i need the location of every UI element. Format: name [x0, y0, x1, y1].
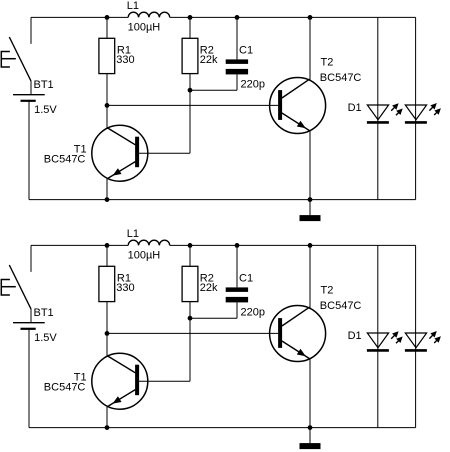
svg-text:100µH: 100µH [128, 250, 161, 262]
wire C1 bottom to node B (bottom circuit) [190, 302, 237, 318]
wire LED branch 2 vertical (right edge) (bottom circuit) [415, 245, 417, 427]
transistor T2 (top circuit) [270, 78, 326, 134]
wire C1 bottom to node B (top circuit) [190, 74, 237, 90]
ground (top circuit) [300, 200, 321, 222]
label 100µH (bottom circuit) [128, 250, 161, 262]
node supply/T2 collector junction (bottom circuit) [308, 243, 313, 248]
label 220p (bottom circuit) [241, 306, 265, 318]
svg-text:D1: D1 [348, 102, 362, 114]
resistor R2 (bottom circuit) [182, 266, 198, 301]
capacitor C1 (top circuit) [226, 59, 248, 74]
wire top supply rail left of L1 (bottom circuit) [31, 244, 128, 246]
inductor L1 (bottom circuit) [128, 240, 170, 245]
label T1 (bottom circuit) [74, 372, 87, 384]
battery BT1 (bottom circuit) [13, 323, 45, 329]
node supply/L1/R2 junction (top circuit) [188, 15, 193, 20]
label R1 (top circuit) [117, 44, 131, 56]
node A: R1 / T2 base / T1 collector (top circuit) [105, 103, 110, 108]
svg-text:1.5V: 1.5V [34, 332, 57, 344]
svg-text:100µH: 100µH [128, 22, 161, 34]
svg-text:T2: T2 [321, 285, 334, 297]
wire bottom ground rail (top circuit) [29, 199, 416, 201]
label C1 (bottom circuit) [239, 272, 253, 284]
label 22k (bottom circuit) [200, 282, 218, 294]
label BT1 (top circuit) [34, 79, 54, 91]
svg-text:C1: C1 [239, 272, 253, 284]
svg-text:1.5V: 1.5V [34, 104, 57, 116]
wire bottom ground rail (bottom circuit) [29, 427, 416, 429]
pushbutton switch S1 (top circuit) [1, 37, 31, 81]
transistor T1 (top circuit) [92, 125, 148, 181]
transistor T1 (bottom circuit) [92, 353, 148, 409]
label 330 (bottom circuit) [116, 282, 134, 294]
ground (bottom circuit) [300, 428, 321, 450]
wire top supply rail right of L1 (top circuit) [170, 16, 416, 18]
label R1 (bottom circuit) [117, 272, 131, 284]
node supply/C1 junction (top circuit) [235, 15, 240, 20]
svg-text:220p: 220p [241, 78, 265, 90]
wire R2 to node B (top circuit) [189, 74, 191, 91]
label T1 (top circuit) [74, 144, 87, 156]
capacitor C1 (bottom circuit) [226, 287, 248, 302]
label 1.5V (bottom circuit) [34, 332, 57, 344]
LED D1 (first) (bottom circuit) [367, 331, 403, 350]
label 330 (top circuit) [116, 54, 134, 66]
label 100µH (top circuit) [128, 22, 161, 34]
svg-text:330: 330 [116, 282, 134, 294]
wire node B down to T1 base level (top circuit) [189, 90, 191, 153]
svg-text:D1: D1 [348, 330, 362, 342]
label BC547C for T2 (bottom circuit) [320, 300, 362, 312]
wire T1 base (top circuit) [139, 152, 190, 154]
svg-text:C1: C1 [239, 44, 253, 56]
wire LED branch 2 vertical (right edge) (top circuit) [415, 17, 417, 199]
label T2 (bottom circuit) [321, 285, 334, 297]
pushbutton switch S1 (bottom circuit) [1, 265, 31, 309]
svg-text:BC547C: BC547C [320, 72, 362, 84]
resistor R1 (bottom circuit) [99, 266, 115, 301]
label T2 (top circuit) [321, 57, 334, 69]
label L1 (bottom circuit) [127, 228, 139, 240]
svg-text:T2: T2 [321, 57, 334, 69]
wire R2 to node B (bottom circuit) [189, 302, 191, 319]
wire rail to T2 collector (top circuit) [309, 17, 311, 80]
wire LED branch 1 vertical (bottom circuit) [377, 245, 379, 427]
svg-text:BT1: BT1 [34, 307, 54, 319]
wire top supply rail left of L1 (top circuit) [31, 16, 128, 18]
resistor R2 (top circuit) [182, 38, 198, 73]
node supply/R1/L1 junction (bottom circuit) [105, 243, 110, 248]
wire node A to T2 base (bottom circuit) [107, 332, 278, 334]
wire T2 emitter to bottom rail (top circuit) [309, 131, 311, 200]
wire T2 emitter to bottom rail (bottom circuit) [309, 359, 311, 428]
wire node B down to T1 base level (bottom circuit) [189, 318, 191, 381]
wire battery minus to bottom rail (bottom circuit) [28, 329, 30, 428]
LED D1 (second) (bottom circuit) [405, 331, 441, 350]
wire R1 to node A (top circuit) [106, 74, 108, 106]
label 220p (top circuit) [241, 78, 265, 90]
wire LED branch 1 vertical (top circuit) [377, 17, 379, 199]
label BC547C for T2 (top circuit) [320, 72, 362, 84]
label C1 (top circuit) [239, 44, 253, 56]
wire rail to R1 (bottom circuit) [106, 245, 108, 266]
label BT1 (bottom circuit) [34, 307, 54, 319]
node supply/T2 collector junction (top circuit) [308, 15, 313, 20]
node B: R2 / C1 / T1 base (bottom circuit) [188, 316, 193, 321]
label BC547C for T1 (top circuit) [44, 154, 86, 166]
label D1 (top circuit) [348, 102, 362, 114]
wire node A to T1 collector (bottom circuit) [106, 333, 108, 355]
label L1 (top circuit) [127, 0, 139, 12]
svg-text:L1: L1 [127, 228, 139, 240]
pushbutton switch top contact wire (top circuit) [30, 17, 32, 44]
LED D1 (first) (top circuit) [367, 103, 403, 122]
svg-text:BC547C: BC547C [44, 382, 86, 394]
wire top supply rail right of L1 (bottom circuit) [170, 244, 416, 246]
label R2 (top circuit) [200, 44, 214, 56]
LED D1 (second) (top circuit) [405, 103, 441, 122]
node T2 emitter / ground junction (bottom circuit) [308, 425, 313, 430]
wire node A to T1 collector (top circuit) [106, 105, 108, 127]
transistor T2 (bottom circuit) [270, 306, 326, 362]
label BC547C for T1 (bottom circuit) [44, 382, 86, 394]
svg-text:22k: 22k [200, 54, 218, 66]
node supply/R1/L1 junction (top circuit) [105, 15, 110, 20]
svg-text:22k: 22k [200, 282, 218, 294]
inductor L1 (top circuit) [128, 12, 170, 17]
resistor R1 (top circuit) [99, 38, 115, 73]
wire rail to R2 (top circuit) [189, 17, 191, 38]
wire rail to R1 (top circuit) [106, 17, 108, 38]
wire rail to C1 (top circuit) [236, 17, 238, 59]
label 22k (top circuit) [200, 54, 218, 66]
wire T1 emitter to bottom rail (top circuit) [106, 179, 108, 200]
wire T1 base (bottom circuit) [139, 380, 190, 382]
svg-text:220p: 220p [241, 306, 265, 318]
svg-text:BC547C: BC547C [44, 154, 86, 166]
wire switch to battery (bottom circuit) [30, 309, 32, 323]
node T1 emitter / bottom rail (bottom circuit) [105, 425, 110, 430]
node supply/L1/R2 junction (bottom circuit) [188, 243, 193, 248]
label 1.5V (top circuit) [34, 104, 57, 116]
svg-text:L1: L1 [127, 0, 139, 12]
wire T1 emitter to bottom rail (bottom circuit) [106, 407, 108, 428]
svg-text:BT1: BT1 [34, 79, 54, 91]
label R2 (bottom circuit) [200, 272, 214, 284]
wire switch to battery (top circuit) [30, 81, 32, 95]
svg-text:330: 330 [116, 54, 134, 66]
wire R1 to node A (bottom circuit) [106, 302, 108, 334]
node T2 emitter / ground junction (top circuit) [308, 197, 313, 202]
wire rail to C1 (bottom circuit) [236, 245, 238, 287]
svg-text:BC547C: BC547C [320, 300, 362, 312]
label D1 (bottom circuit) [348, 330, 362, 342]
wire rail to T2 collector (bottom circuit) [309, 245, 311, 308]
node A: R1 / T2 base / T1 collector (bottom circuit) [105, 331, 110, 336]
node supply/C1 junction (bottom circuit) [235, 243, 240, 248]
wire node A to T2 base (top circuit) [107, 104, 278, 106]
node B: R2 / C1 / T1 base (top circuit) [188, 88, 193, 93]
wire rail to R2 (bottom circuit) [189, 245, 191, 266]
wire battery minus to bottom rail (top circuit) [28, 101, 30, 200]
pushbutton switch top contact wire (bottom circuit) [30, 245, 32, 272]
battery BT1 (top circuit) [13, 95, 45, 101]
node T1 emitter / bottom rail (top circuit) [105, 197, 110, 202]
